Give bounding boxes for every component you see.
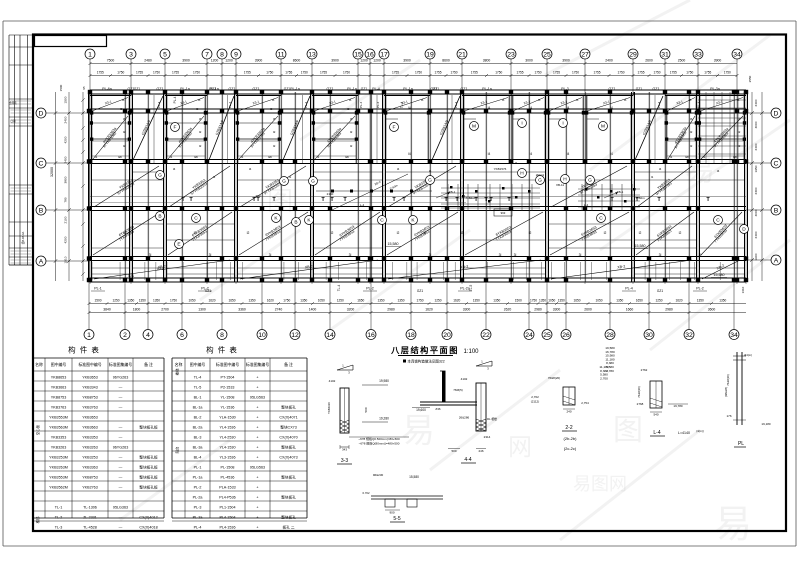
svg-text:L-4: L-4 bbox=[360, 203, 365, 207]
svg-text:3800: 3800 bbox=[64, 176, 68, 183]
svg-text:PL1-1504: PL1-1504 bbox=[220, 506, 236, 510]
svg-text:PL-4: PL-4 bbox=[173, 96, 177, 103]
svg-text:YKB8653: YKB8653 bbox=[51, 376, 67, 380]
svg-text:2762: 2762 bbox=[641, 368, 648, 372]
svg-text:TL-1306: TL-1306 bbox=[83, 506, 97, 510]
svg-text:3900: 3900 bbox=[403, 59, 411, 63]
svg-text:+: + bbox=[256, 446, 258, 450]
svg-text:2600: 2600 bbox=[584, 308, 592, 312]
svg-text:1755: 1755 bbox=[516, 71, 523, 75]
svg-text:1250: 1250 bbox=[112, 299, 119, 303]
svg-text:1050: 1050 bbox=[595, 299, 602, 303]
svg-text:21: 21 bbox=[458, 51, 466, 58]
svg-text:1620: 1620 bbox=[267, 299, 274, 303]
svg-text:~6?8 规格Q0.500mm(=80+500: ~6?8 规格Q0.500mm(=80+500 bbox=[358, 436, 400, 441]
svg-text:76M(5): 76M(5) bbox=[453, 388, 463, 392]
svg-text:1350: 1350 bbox=[558, 299, 565, 303]
svg-text:GZ1: GZ1 bbox=[433, 87, 440, 91]
svg-text:2980: 2980 bbox=[387, 308, 395, 312]
svg-text:I3: I3 bbox=[270, 107, 273, 111]
svg-text:1650: 1650 bbox=[228, 299, 235, 303]
svg-text:3|: 3| bbox=[209, 253, 212, 257]
svg-text:(2b-2b): (2b-2b) bbox=[564, 436, 578, 441]
svg-text:I2: I2 bbox=[461, 231, 464, 235]
svg-text:GZ1: GZ1 bbox=[636, 87, 643, 91]
svg-text:I: I bbox=[521, 121, 522, 127]
svg-text:3|: 3| bbox=[149, 253, 152, 257]
svg-text:2100: 2100 bbox=[64, 216, 68, 223]
svg-text:3: 3 bbox=[129, 51, 133, 58]
svg-text:PL-4: PL-4 bbox=[697, 101, 701, 108]
svg-text:2700: 2700 bbox=[161, 308, 169, 312]
svg-text:TL-1: TL-1 bbox=[55, 506, 63, 510]
svg-text:YKB3363: YKB3363 bbox=[82, 466, 98, 470]
svg-text:I4: I4 bbox=[429, 169, 432, 173]
svg-text:2400: 2400 bbox=[64, 156, 68, 163]
svg-text:25: 25 bbox=[543, 51, 551, 58]
svg-text:1: 1 bbox=[87, 332, 91, 339]
svg-text:1755: 1755 bbox=[244, 71, 251, 75]
svg-text:I4: I4 bbox=[408, 152, 411, 156]
svg-text:+: + bbox=[256, 456, 258, 460]
svg-text:H: H bbox=[563, 177, 567, 183]
svg-text:PL-4536: PL-4536 bbox=[221, 476, 235, 480]
svg-text:I2: I2 bbox=[529, 231, 532, 235]
svg-text:I: I bbox=[562, 121, 563, 127]
svg-text:PL-2: PL-2 bbox=[366, 287, 374, 291]
svg-text:2480: 2480 bbox=[144, 59, 152, 63]
svg-text:1755: 1755 bbox=[704, 71, 711, 75]
svg-text:G: G bbox=[311, 179, 315, 185]
svg-text:名称: 名称 bbox=[175, 362, 183, 367]
svg-text:空心板: 空心板 bbox=[35, 424, 40, 435]
svg-text:900: 900 bbox=[389, 511, 394, 515]
svg-text:500: 500 bbox=[364, 407, 368, 412]
svg-text:1500: 1500 bbox=[94, 299, 101, 303]
svg-text:PL-3: PL-3 bbox=[194, 506, 202, 510]
svg-text:I2: I2 bbox=[690, 130, 693, 134]
svg-text:G: G bbox=[588, 178, 592, 184]
svg-text:CX(X)4012: CX(X)4012 bbox=[139, 516, 157, 520]
svg-text:I3: I3 bbox=[576, 98, 579, 102]
svg-text:I4: I4 bbox=[408, 106, 411, 110]
svg-text:I3: I3 bbox=[538, 98, 541, 102]
svg-text:GZ1: GZ1 bbox=[128, 274, 134, 278]
svg-text:2,762: 2,762 bbox=[531, 395, 539, 399]
svg-text:+: + bbox=[256, 476, 258, 480]
svg-text:H: H bbox=[520, 171, 524, 177]
svg-text:YL3-1536: YL3-1536 bbox=[220, 456, 236, 460]
svg-text:Z36: Z36 bbox=[435, 407, 441, 411]
svg-text:八层结构平面图: 八层结构平面图 bbox=[390, 345, 459, 355]
svg-text:1755: 1755 bbox=[434, 71, 441, 75]
svg-text:4102: 4102 bbox=[461, 377, 468, 381]
svg-text:I2: I2 bbox=[123, 130, 126, 134]
svg-text:1755: 1755 bbox=[553, 71, 560, 75]
svg-text:4200: 4200 bbox=[64, 236, 68, 243]
svg-text:YL4-2530: YL4-2530 bbox=[220, 436, 236, 440]
svg-text:PL-4: PL-4 bbox=[228, 102, 232, 109]
svg-text:—: — bbox=[119, 386, 123, 390]
svg-text:整块板孔: 整块板孔 bbox=[281, 495, 296, 500]
svg-text:I2: I2 bbox=[690, 144, 693, 148]
svg-text:PL-4: PL-4 bbox=[157, 102, 161, 109]
svg-text:540: 540 bbox=[653, 413, 658, 417]
svg-text:L-4: L-4 bbox=[653, 430, 660, 436]
svg-text:G: G bbox=[158, 173, 162, 179]
svg-text:1250: 1250 bbox=[655, 299, 662, 303]
svg-text:23: 23 bbox=[507, 51, 515, 58]
svg-text:I1: I1 bbox=[289, 175, 292, 179]
svg-text:15,580: 15,580 bbox=[409, 475, 419, 479]
svg-text:1350: 1350 bbox=[127, 299, 134, 303]
svg-text:2400: 2400 bbox=[754, 143, 758, 150]
svg-text:YKB3353: YKB3353 bbox=[51, 436, 67, 440]
svg-text:1200: 1200 bbox=[225, 59, 233, 63]
svg-text:I3: I3 bbox=[122, 98, 125, 102]
svg-text:1200: 1200 bbox=[360, 59, 368, 63]
svg-text:1250: 1250 bbox=[434, 299, 441, 303]
svg-text:G: G bbox=[538, 178, 542, 184]
svg-text:CX(X)4018: CX(X)4018 bbox=[139, 526, 157, 530]
svg-text:YL-1508: YL-1508 bbox=[221, 396, 235, 400]
svg-text:—: — bbox=[119, 526, 123, 530]
svg-text:GZ1: GZ1 bbox=[361, 87, 368, 91]
svg-text:I4: I4 bbox=[529, 152, 532, 156]
svg-text:1620: 1620 bbox=[675, 299, 682, 303]
svg-text:14: 14 bbox=[326, 332, 334, 339]
svg-text:4000: 4000 bbox=[754, 209, 758, 216]
svg-text:PL-4: PL-4 bbox=[454, 102, 458, 109]
svg-text:3900: 3900 bbox=[562, 59, 570, 63]
svg-text:1750: 1750 bbox=[343, 71, 350, 75]
svg-text:BL-3a: BL-3a bbox=[193, 446, 204, 450]
svg-text:28: 28 bbox=[606, 332, 614, 339]
svg-text:M: M bbox=[601, 124, 605, 130]
svg-text:I1: I1 bbox=[213, 175, 216, 179]
svg-text:BL-3: BL-3 bbox=[194, 436, 202, 440]
svg-text:1350: 1350 bbox=[248, 299, 255, 303]
svg-text:10: 10 bbox=[258, 332, 266, 339]
svg-text:F: F bbox=[174, 125, 177, 131]
svg-text:日期: 日期 bbox=[10, 119, 16, 123]
svg-text:YKB3663: YKB3663 bbox=[82, 426, 98, 430]
svg-text:16: 16 bbox=[366, 51, 374, 58]
svg-text:34: 34 bbox=[733, 51, 741, 58]
svg-text:G: G bbox=[428, 178, 432, 184]
svg-text:C: C bbox=[39, 160, 44, 167]
svg-text:19: 19 bbox=[426, 51, 434, 58]
svg-text:CX(X)4070: CX(X)4070 bbox=[279, 436, 297, 440]
svg-text:1755: 1755 bbox=[637, 71, 644, 75]
svg-text:PL-1a: PL-1a bbox=[193, 476, 204, 480]
svg-text:易: 易 bbox=[714, 504, 752, 546]
svg-text:M: M bbox=[472, 124, 476, 130]
svg-text:I2: I2 bbox=[397, 231, 400, 235]
svg-text:L=4140: L=4140 bbox=[678, 431, 690, 435]
svg-text:B: B bbox=[294, 220, 297, 226]
svg-text:I4: I4 bbox=[249, 167, 252, 171]
svg-text:2400: 2400 bbox=[605, 59, 613, 63]
svg-text:YKB2763: YKB2763 bbox=[82, 486, 98, 490]
svg-text:1620: 1620 bbox=[425, 308, 433, 312]
svg-text:1755: 1755 bbox=[285, 71, 292, 75]
svg-text:19,980: 19,980 bbox=[379, 379, 389, 383]
svg-text:3|: 3| bbox=[499, 253, 502, 257]
svg-text:I4: I4 bbox=[567, 152, 570, 156]
svg-text:I2: I2 bbox=[350, 130, 353, 134]
svg-text:3200: 3200 bbox=[347, 308, 355, 312]
svg-text:I3: I3 bbox=[421, 98, 424, 102]
svg-text:1650: 1650 bbox=[636, 299, 643, 303]
svg-text:15,580: 15,580 bbox=[635, 244, 646, 248]
svg-text:GZ1: GZ1 bbox=[134, 87, 141, 91]
svg-text:I2b: I2b bbox=[685, 155, 690, 159]
svg-text:整块板孔板: 整块板孔板 bbox=[139, 475, 158, 480]
svg-text:I2: I2 bbox=[679, 231, 682, 235]
svg-text:+: + bbox=[256, 506, 258, 510]
svg-text:2400: 2400 bbox=[64, 116, 68, 123]
svg-text:1755: 1755 bbox=[320, 71, 327, 75]
svg-text:1350: 1350 bbox=[697, 299, 704, 303]
svg-text:—: — bbox=[119, 396, 123, 400]
svg-text:8: 8 bbox=[220, 332, 224, 339]
svg-text:PL4-1536: PL4-1536 bbox=[220, 526, 236, 530]
svg-text:20: 20 bbox=[443, 332, 451, 339]
svg-text:27: 27 bbox=[581, 51, 589, 58]
svg-text:2740: 2740 bbox=[275, 308, 283, 312]
svg-text:YLA-1530: YLA-1530 bbox=[219, 416, 235, 420]
svg-text:1350: 1350 bbox=[616, 299, 623, 303]
svg-text:1750: 1750 bbox=[193, 71, 200, 75]
svg-text:1750: 1750 bbox=[153, 71, 160, 75]
svg-text:D: D bbox=[774, 110, 779, 117]
svg-text:XB-11: XB-11 bbox=[556, 183, 564, 187]
svg-text:19,280: 19,280 bbox=[379, 417, 389, 421]
svg-text:1350: 1350 bbox=[397, 299, 404, 303]
svg-text:24: 24 bbox=[525, 332, 533, 339]
svg-text:板孔 二: 板孔 二 bbox=[282, 525, 294, 530]
svg-text:构 件 表: 构 件 表 bbox=[68, 345, 100, 355]
svg-text:GZ1: GZ1 bbox=[205, 289, 211, 293]
svg-text:PL-2: PL-2 bbox=[194, 486, 202, 490]
svg-text:PL-1508: PL-1508 bbox=[221, 466, 235, 470]
svg-text:1350: 1350 bbox=[153, 299, 160, 303]
svg-text:1650: 1650 bbox=[357, 299, 364, 303]
svg-text:I2b: I2b bbox=[118, 155, 123, 159]
svg-text:PL-2a: PL-2a bbox=[193, 496, 204, 500]
svg-text:2: 2 bbox=[123, 332, 127, 339]
svg-text:楼梯: 楼梯 bbox=[35, 516, 40, 523]
svg-text:BL-1a: BL-1a bbox=[193, 406, 204, 410]
svg-text:+: + bbox=[256, 496, 258, 500]
svg-text:PL4-P536: PL4-P536 bbox=[219, 496, 235, 500]
svg-text:~6?8 规格Q(80mm)(=480+500: ~6?8 规格Q(80mm)(=480+500 bbox=[359, 441, 400, 446]
svg-text:YL4-1530: YL4-1530 bbox=[220, 446, 236, 450]
svg-text:BL-1: BL-1 bbox=[194, 396, 202, 400]
svg-text:整块板孔: 整块板孔 bbox=[281, 445, 296, 450]
svg-text:4200: 4200 bbox=[64, 136, 68, 143]
svg-text:整块板孔板: 整块板孔板 bbox=[139, 485, 158, 490]
svg-text:阳台: 阳台 bbox=[175, 446, 180, 453]
svg-text:—: — bbox=[119, 466, 123, 470]
svg-text:2,754: 2,754 bbox=[581, 401, 589, 405]
svg-text:标准图集编号: 标准图集编号 bbox=[109, 362, 132, 367]
svg-text:19,180: 19,180 bbox=[761, 422, 771, 426]
svg-text:1500: 1500 bbox=[59, 84, 63, 91]
svg-text:TL-4528: TL-4528 bbox=[83, 526, 97, 530]
svg-text:I1: I1 bbox=[95, 155, 98, 159]
svg-text:95: 95 bbox=[82, 86, 86, 90]
svg-text:C: C bbox=[380, 218, 384, 224]
svg-text:3|: 3| bbox=[349, 253, 352, 257]
svg-text:I4: I4 bbox=[610, 152, 613, 156]
svg-text:4-4: 4-4 bbox=[464, 457, 471, 463]
svg-text:I3: I3 bbox=[198, 98, 201, 102]
svg-text:1350: 1350 bbox=[719, 299, 726, 303]
svg-text:PL-4: PL-4 bbox=[359, 102, 363, 109]
svg-text:BL-4: BL-4 bbox=[194, 456, 202, 460]
svg-text:95LG563: 95LG563 bbox=[250, 396, 265, 400]
svg-text:22: 22 bbox=[482, 332, 490, 339]
svg-text:P2-1533: P2-1533 bbox=[221, 386, 235, 390]
svg-text:1620: 1620 bbox=[208, 299, 215, 303]
svg-text:3|: 3| bbox=[579, 253, 582, 257]
svg-text:D: D bbox=[742, 227, 746, 233]
svg-text:(2112): (2112) bbox=[531, 400, 539, 404]
svg-text:TL-4: TL-4 bbox=[400, 102, 404, 109]
svg-text:—: — bbox=[119, 436, 123, 440]
svg-text:1750: 1750 bbox=[416, 299, 423, 303]
svg-text:CX(X)4073: CX(X)4073 bbox=[279, 456, 297, 460]
svg-text:I2: I2 bbox=[424, 231, 427, 235]
svg-text:I2: I2 bbox=[123, 144, 126, 148]
svg-text:TL-5: TL-5 bbox=[194, 386, 202, 390]
svg-text:I4: I4 bbox=[397, 167, 400, 171]
svg-text:4|4(m): 4|4(m) bbox=[744, 353, 752, 357]
svg-text:易图网: 易图网 bbox=[573, 474, 627, 494]
svg-text:1050: 1050 bbox=[188, 299, 195, 303]
svg-text:0.702: 0.702 bbox=[363, 491, 370, 495]
svg-text:I3: I3 bbox=[349, 98, 352, 102]
svg-text:15: 15 bbox=[354, 51, 362, 58]
svg-text:会签名: 会签名 bbox=[9, 101, 17, 105]
svg-text:1755: 1755 bbox=[172, 71, 179, 75]
svg-text:34: 34 bbox=[730, 332, 738, 339]
svg-text:PL-4: PL-4 bbox=[304, 102, 308, 109]
svg-text:1750: 1750 bbox=[653, 71, 660, 75]
svg-text:3|: 3| bbox=[659, 253, 662, 257]
svg-text:楼梯: 楼梯 bbox=[175, 368, 180, 375]
svg-text:名称: 名称 bbox=[35, 362, 43, 367]
svg-text:2500: 2500 bbox=[678, 59, 686, 63]
svg-text:ZL-2331: ZL-2331 bbox=[83, 516, 97, 520]
svg-text:1660: 1660 bbox=[626, 308, 634, 312]
svg-text:E: E bbox=[177, 242, 180, 248]
svg-text:TL-2: TL-2 bbox=[55, 516, 63, 520]
svg-text:B: B bbox=[39, 207, 44, 214]
svg-text:YL4-1536: YL4-1536 bbox=[220, 426, 236, 430]
svg-text:76&8(20): 76&8(20) bbox=[637, 386, 641, 398]
svg-text:I1: I1 bbox=[651, 175, 654, 179]
svg-text:5-5: 5-5 bbox=[393, 516, 400, 522]
svg-text:GZ1: GZ1 bbox=[157, 267, 163, 271]
svg-text:17: 17 bbox=[380, 51, 388, 58]
svg-text:3300: 3300 bbox=[463, 308, 471, 312]
svg-text:3-3: 3-3 bbox=[341, 458, 348, 464]
svg-text:I2: I2 bbox=[194, 231, 197, 235]
svg-text:I1: I1 bbox=[515, 161, 518, 165]
svg-text:F: F bbox=[393, 125, 396, 131]
svg-text:13: 13 bbox=[308, 51, 316, 58]
svg-text:2980: 2980 bbox=[665, 308, 673, 312]
svg-text:YKB3553M: YKB3553M bbox=[49, 416, 68, 420]
svg-text:95LG363: 95LG363 bbox=[113, 506, 128, 510]
svg-text:3|: 3| bbox=[429, 253, 432, 257]
svg-text:+: + bbox=[256, 486, 258, 490]
svg-text:(2c-2c): (2c-2c) bbox=[564, 446, 577, 451]
svg-text:—: — bbox=[119, 516, 123, 520]
svg-text:31: 31 bbox=[661, 51, 669, 58]
svg-text:96YG263: 96YG263 bbox=[113, 446, 129, 450]
svg-text:(4(m)): (4(m)) bbox=[696, 429, 704, 433]
svg-text:240: 240 bbox=[566, 410, 571, 414]
svg-text:I2: I2 bbox=[247, 231, 250, 235]
svg-text:I4: I4 bbox=[488, 152, 491, 156]
svg-text:PL4-1504: PL4-1504 bbox=[220, 516, 236, 520]
svg-text:1750: 1750 bbox=[534, 71, 541, 75]
svg-text:B: B bbox=[158, 214, 161, 220]
svg-text:500: 500 bbox=[451, 449, 456, 453]
svg-text:1610: 1610 bbox=[741, 286, 745, 293]
svg-text:本连锁构造做法见图322: 本连锁构造做法见图322 bbox=[407, 359, 444, 364]
svg-text:PL-2: PL-2 bbox=[696, 287, 704, 291]
svg-text:2980: 2980 bbox=[534, 308, 542, 312]
svg-text:2160: 2160 bbox=[327, 192, 334, 196]
svg-text:1750: 1750 bbox=[572, 71, 579, 75]
svg-text:整块板孔: 整块板孔 bbox=[281, 515, 296, 520]
svg-text:—: — bbox=[119, 486, 123, 490]
svg-text:YKB3563M: YKB3563M bbox=[49, 426, 68, 430]
svg-text:GZ1: GZ1 bbox=[417, 289, 423, 293]
svg-text:GZ1: GZ1 bbox=[210, 87, 217, 91]
svg-text:26&286: 26&286 bbox=[459, 416, 470, 420]
svg-text:8: 8 bbox=[220, 51, 224, 58]
svg-text:1750: 1750 bbox=[530, 299, 537, 303]
svg-text:8600: 8600 bbox=[293, 59, 301, 63]
svg-text:1755: 1755 bbox=[392, 71, 399, 75]
svg-text:YKB4620: YKB4620 bbox=[327, 402, 331, 414]
svg-text:整块板孔: 整块板孔 bbox=[281, 475, 296, 480]
svg-text:GZ1: GZ1 bbox=[657, 289, 663, 293]
svg-text:2314: 2314 bbox=[484, 435, 491, 439]
svg-text:1650: 1650 bbox=[573, 299, 580, 303]
svg-text:L-4: L-4 bbox=[584, 203, 589, 207]
svg-text:1350: 1350 bbox=[139, 299, 146, 303]
svg-text:1350: 1350 bbox=[493, 299, 500, 303]
svg-text:I2b: I2b bbox=[268, 155, 273, 159]
svg-text:95LG563: 95LG563 bbox=[250, 466, 265, 470]
svg-text:I4: I4 bbox=[659, 167, 662, 171]
svg-text:1500: 1500 bbox=[515, 299, 522, 303]
svg-text:整块板孔: 整块板孔 bbox=[281, 405, 296, 410]
svg-text:19,600: 19,600 bbox=[416, 408, 426, 412]
svg-text:PL-3a: PL-3a bbox=[193, 516, 204, 520]
svg-text:—: — bbox=[119, 426, 123, 430]
svg-text:4102: 4102 bbox=[329, 379, 336, 383]
svg-text:1200: 1200 bbox=[211, 59, 219, 63]
svg-text:3|: 3| bbox=[269, 253, 272, 257]
